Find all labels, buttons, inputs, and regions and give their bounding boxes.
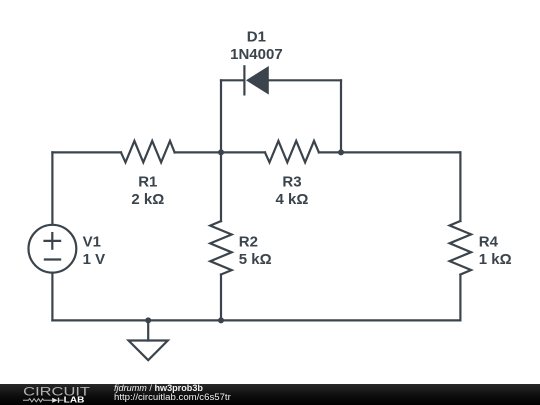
label V1 value 1 V [83, 251, 106, 268]
label R4 value 1 kOhm [479, 251, 512, 268]
wire diode branch left vertical [220, 80, 222, 152]
resistor R3 [265, 141, 319, 163]
svg-text:1N4007: 1N4007 [230, 46, 283, 63]
wire R1 to node A [175, 151, 221, 153]
label D1 value 1N4007 [230, 46, 283, 63]
svg-text:R4: R4 [479, 234, 499, 251]
V1 minus sign [45, 258, 60, 260]
logo resistor squiggle [23, 399, 52, 402]
svg-text:R1: R1 [138, 174, 157, 191]
wire R2 bottom lead [220, 275, 222, 321]
wire bottom rail [52, 319, 460, 321]
svg-text:LAB: LAB [64, 395, 85, 405]
wire node A to R3 [221, 151, 265, 153]
svg-text:4 kΩ: 4 kΩ [276, 191, 309, 208]
resistor R4 [450, 221, 472, 275]
voltage source V1 circle [29, 225, 77, 273]
label R2 [239, 234, 258, 251]
wire diode branch top-left to D1 cathode [221, 79, 244, 81]
wire D1 anode to top-right [268, 79, 341, 81]
node R2-bottom junction dot [218, 317, 224, 323]
label R2 value 5 kOhm [239, 251, 272, 268]
label R3 [282, 174, 301, 191]
label V1 [83, 234, 101, 251]
CircuitLab logo [0, 384, 110, 405]
node ground junction dot [145, 317, 151, 323]
wire R3 to node B [319, 151, 341, 153]
label D1 [247, 29, 266, 46]
svg-text:V1: V1 [83, 234, 101, 251]
wire R2 top lead [220, 152, 222, 221]
wire left rail lower (V1 bottom lead) [51, 273, 53, 320]
footer attribution text [114, 384, 414, 403]
svg-text:2 kΩ: 2 kΩ [131, 191, 164, 208]
logo diode [52, 398, 63, 403]
footer bar [0, 384, 540, 405]
svg-text:R2: R2 [239, 234, 258, 251]
svg-text:D1: D1 [247, 29, 266, 46]
wire ground stem [147, 320, 149, 340]
node A junction dot [218, 149, 224, 155]
wire left rail upper (V1 top lead) [51, 152, 53, 224]
diode D1 cathode bar [243, 66, 245, 94]
ground symbol triangle [129, 341, 168, 361]
V1 plus sign [45, 233, 61, 249]
label R1 value 2 kOhm [131, 191, 164, 208]
logo wordmark CIRCUIT [23, 384, 91, 398]
node B junction dot [338, 149, 344, 155]
wire R4 bottom lead [459, 275, 461, 320]
label R1 [138, 174, 157, 191]
resistor R1 [121, 141, 175, 163]
svg-text:1 V: 1 V [83, 251, 106, 268]
wire R4 top lead [459, 152, 461, 221]
svg-text:1 kΩ: 1 kΩ [479, 251, 512, 268]
logo wordmark LAB [64, 395, 85, 405]
svg-text:5 kΩ: 5 kΩ [239, 251, 272, 268]
label R3 value 4 kOhm [276, 191, 309, 208]
label R4 [479, 234, 499, 251]
svg-text:R3: R3 [282, 174, 301, 191]
diode D1 triangle [247, 67, 268, 94]
resistor R2 [210, 221, 232, 274]
wire node B to top-right corner [341, 151, 460, 153]
wire diode branch right vertical [340, 80, 342, 152]
wire top-left horizontal (left rail to R1) [52, 151, 121, 153]
